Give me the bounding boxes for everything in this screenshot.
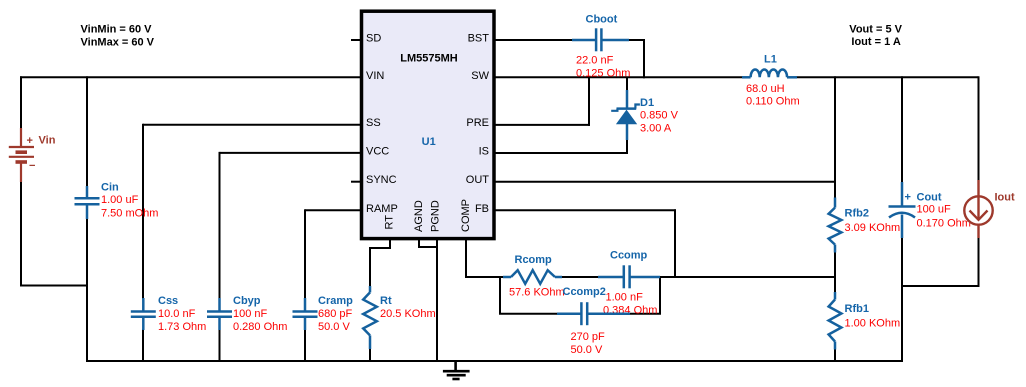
- wire AGND stub down: [418, 240, 420, 248]
- wire Rt branch vertical lower: [369, 343, 371, 362]
- svg-text:PRE: PRE: [466, 117, 489, 129]
- wire SYNC pin stub: [351, 181, 361, 183]
- wire Css branch vertical upper: [142, 124, 144, 299]
- svg-text:10.0 nF: 10.0 nF: [158, 308, 196, 320]
- wire RAMP horizontal: [305, 209, 361, 211]
- wire Rfb1 bottom to rail: [834, 349, 836, 362]
- capacitor Cin: [75, 186, 100, 219]
- capacitor Cbyp: [207, 298, 232, 330]
- svg-text:1.73 Ohm: 1.73 Ohm: [158, 321, 206, 333]
- capacitor Cboot: [572, 28, 629, 51]
- svg-text:RAMP: RAMP: [366, 203, 398, 215]
- resistor Rfb2: [829, 198, 842, 253]
- wire Cramp branch vertical upper: [304, 209, 306, 299]
- wire PRE horizontal: [494, 124, 590, 126]
- capacitor Ccomp: [624, 265, 660, 288]
- svg-text:FB: FB: [475, 203, 489, 215]
- svg-text:3.00 A: 3.00 A: [640, 123, 672, 135]
- capacitor Cramp: [293, 298, 318, 330]
- resistor Rfb1: [829, 292, 842, 350]
- capacitor Cout (polarized): [889, 182, 916, 238]
- svg-text:270 pF: 270 pF: [571, 331, 606, 343]
- svg-text:Rcomp: Rcomp: [515, 254, 553, 266]
- svg-text:SD: SD: [366, 33, 381, 45]
- wire AGND jog to PGND: [418, 246, 437, 248]
- op-amp U1 body: [362, 11, 495, 238]
- wire Cbyp branch vertical upper: [219, 152, 221, 299]
- svg-text:Cin: Cin: [101, 182, 119, 194]
- svg-text:+: +: [27, 135, 33, 147]
- wire Cin branch vertical lower: [86, 218, 88, 362]
- svg-text:+: +: [905, 192, 911, 204]
- svg-text:Cramp: Cramp: [318, 295, 353, 307]
- wire Rt branch vertical upper: [369, 248, 371, 289]
- wire Iout branch top: [978, 76, 980, 181]
- wire Rfb2 branch top: [834, 76, 836, 198]
- wire Cout branch bottom: [901, 237, 903, 362]
- svg-text:IS: IS: [479, 145, 489, 157]
- wire SS horizontal: [143, 124, 361, 126]
- wire D1 top black segment: [626, 78, 628, 91]
- svg-text:VinMin = 60 V: VinMin = 60 V: [81, 23, 153, 35]
- svg-text:1.00 KOhm: 1.00 KOhm: [845, 318, 901, 330]
- wire VIN top rail from battery to U1: [20, 76, 361, 78]
- wire IS horizontal to D1 anode: [494, 152, 628, 154]
- svg-text:SS: SS: [366, 117, 381, 129]
- wire SW horizontal to L1: [494, 76, 743, 78]
- svg-text:VCC: VCC: [366, 145, 389, 157]
- svg-text:−: −: [29, 160, 35, 172]
- svg-text:680 pF: 680 pF: [318, 308, 353, 320]
- svg-text:Cout: Cout: [917, 192, 942, 204]
- capacitor Css: [131, 298, 156, 330]
- svg-text:Rfb2: Rfb2: [845, 208, 869, 220]
- svg-text:VIN: VIN: [366, 70, 384, 82]
- wire Cramp branch vertical lower: [304, 329, 306, 362]
- wire Cboot right to corner: [628, 39, 645, 41]
- svg-text:Vout = 5 V: Vout = 5 V: [849, 23, 902, 35]
- svg-text:PGND: PGND: [430, 200, 442, 232]
- wire PGND vertical to ground rail: [436, 240, 438, 362]
- wire COMP pin down: [465, 240, 467, 278]
- wire FB horizontal: [494, 209, 676, 211]
- svg-text:3.09 KOhm: 3.09 KOhm: [845, 222, 901, 234]
- wire RT jog left: [369, 247, 391, 249]
- svg-text:22.0 nF: 22.0 nF: [576, 55, 614, 67]
- wire battery bottom vertical: [20, 181, 22, 287]
- wire bottom ground rail: [86, 360, 903, 362]
- wire L1 right to Iout branch: [796, 76, 979, 78]
- svg-text:1.00 nF: 1.00 nF: [606, 292, 644, 304]
- wire Cin branch vertical upper: [86, 76, 88, 187]
- svg-text:0.280 Ohm: 0.280 Ohm: [233, 321, 287, 333]
- wire FB drop down to divider: [674, 209, 676, 278]
- wire SD pin stub: [351, 39, 361, 41]
- svg-text:Cbyp: Cbyp: [233, 295, 261, 307]
- wire Iout bottom return to Cout branch: [901, 285, 979, 287]
- svg-text:SYNC: SYNC: [366, 174, 397, 186]
- inductor L1: [742, 70, 797, 78]
- wire VCC horizontal: [220, 152, 362, 154]
- resistor Rcomp: [503, 270, 624, 284]
- wire Cout branch top: [901, 76, 903, 183]
- svg-text:50.0 V: 50.0 V: [318, 321, 350, 333]
- current source Iout: [964, 180, 992, 238]
- wire battery bottom jog to Cin branch: [20, 285, 87, 287]
- ground: [443, 361, 470, 379]
- svg-text:100 nF: 100 nF: [233, 308, 268, 320]
- svg-text:20.5 KOhm: 20.5 KOhm: [380, 308, 436, 320]
- svg-text:SW: SW: [471, 70, 489, 82]
- svg-text:Cboot: Cboot: [586, 14, 618, 26]
- svg-text:RT: RT: [384, 215, 396, 230]
- wire Css branch vertical lower: [142, 329, 144, 362]
- svg-text:AGND: AGND: [413, 200, 425, 232]
- svg-text:Rfb1: Rfb1: [845, 303, 869, 315]
- wire Ccomp2 left drop: [499, 277, 501, 315]
- svg-text:LM5575MH: LM5575MH: [400, 53, 458, 65]
- svg-text:0.850 V: 0.850 V: [640, 110, 679, 122]
- svg-text:68.0 uH: 68.0 uH: [746, 83, 785, 95]
- wire RT pin stub down: [389, 240, 391, 249]
- svg-text:Iout: Iout: [995, 192, 1015, 204]
- svg-text:7.50 mOhm: 7.50 mOhm: [101, 208, 158, 220]
- svg-text:COMP: COMP: [460, 199, 472, 232]
- svg-text:L1: L1: [764, 53, 777, 65]
- svg-text:Rt: Rt: [380, 295, 392, 307]
- wire PRE up to SW node: [588, 78, 590, 126]
- svg-text:0.170 Ohm: 0.170 Ohm: [917, 218, 971, 230]
- svg-text:100 uF: 100 uF: [917, 204, 952, 216]
- wire battery top vertical: [20, 76, 22, 129]
- svg-text:D1: D1: [640, 97, 654, 109]
- capacitor Ccomp2: [557, 302, 630, 325]
- diode D1 (schottky): [611, 90, 640, 140]
- svg-text:VinMax = 60 V: VinMax = 60 V: [81, 36, 155, 48]
- svg-text:Css: Css: [158, 295, 178, 307]
- wire comp net Ccomp right to Rfb junction: [659, 276, 836, 278]
- wire D1 bottom black segment: [626, 139, 628, 154]
- wire Ccomp2 left horizontal: [499, 313, 558, 315]
- svg-text:Iout = 1 A: Iout = 1 A: [851, 36, 900, 48]
- wire OUT horizontal to output node: [494, 181, 836, 183]
- svg-text:57.6 KOhm: 57.6 KOhm: [509, 287, 565, 299]
- wire Cbyp branch vertical lower: [219, 329, 221, 362]
- wire BST to Cboot: [494, 39, 573, 41]
- wire Cboot corner down to SW line: [643, 39, 645, 78]
- wire Iout branch bottom: [978, 237, 980, 287]
- svg-text:Ccomp2: Ccomp2: [563, 286, 606, 298]
- battery V1 Vin: [9, 128, 34, 182]
- wire Rfb2 to FB junction: [834, 252, 836, 294]
- svg-text:U1: U1: [422, 136, 436, 148]
- svg-text:BST: BST: [468, 33, 490, 45]
- svg-text:1.00 uF: 1.00 uF: [101, 194, 139, 206]
- svg-text:50.0 V: 50.0 V: [571, 344, 603, 356]
- svg-text:0.110 Ohm: 0.110 Ohm: [746, 95, 800, 107]
- resistor Rt: [363, 286, 377, 349]
- svg-text:Ccomp: Ccomp: [610, 250, 648, 262]
- wire Ccomp2 right rise: [659, 277, 661, 315]
- svg-text:0.125 Ohm: 0.125 Ohm: [576, 68, 630, 80]
- wire Ccomp2 right horizontal: [629, 313, 661, 315]
- wire COMP corner to Rcomp: [465, 276, 504, 278]
- svg-text:OUT: OUT: [466, 174, 490, 186]
- svg-text:Vin: Vin: [39, 135, 56, 147]
